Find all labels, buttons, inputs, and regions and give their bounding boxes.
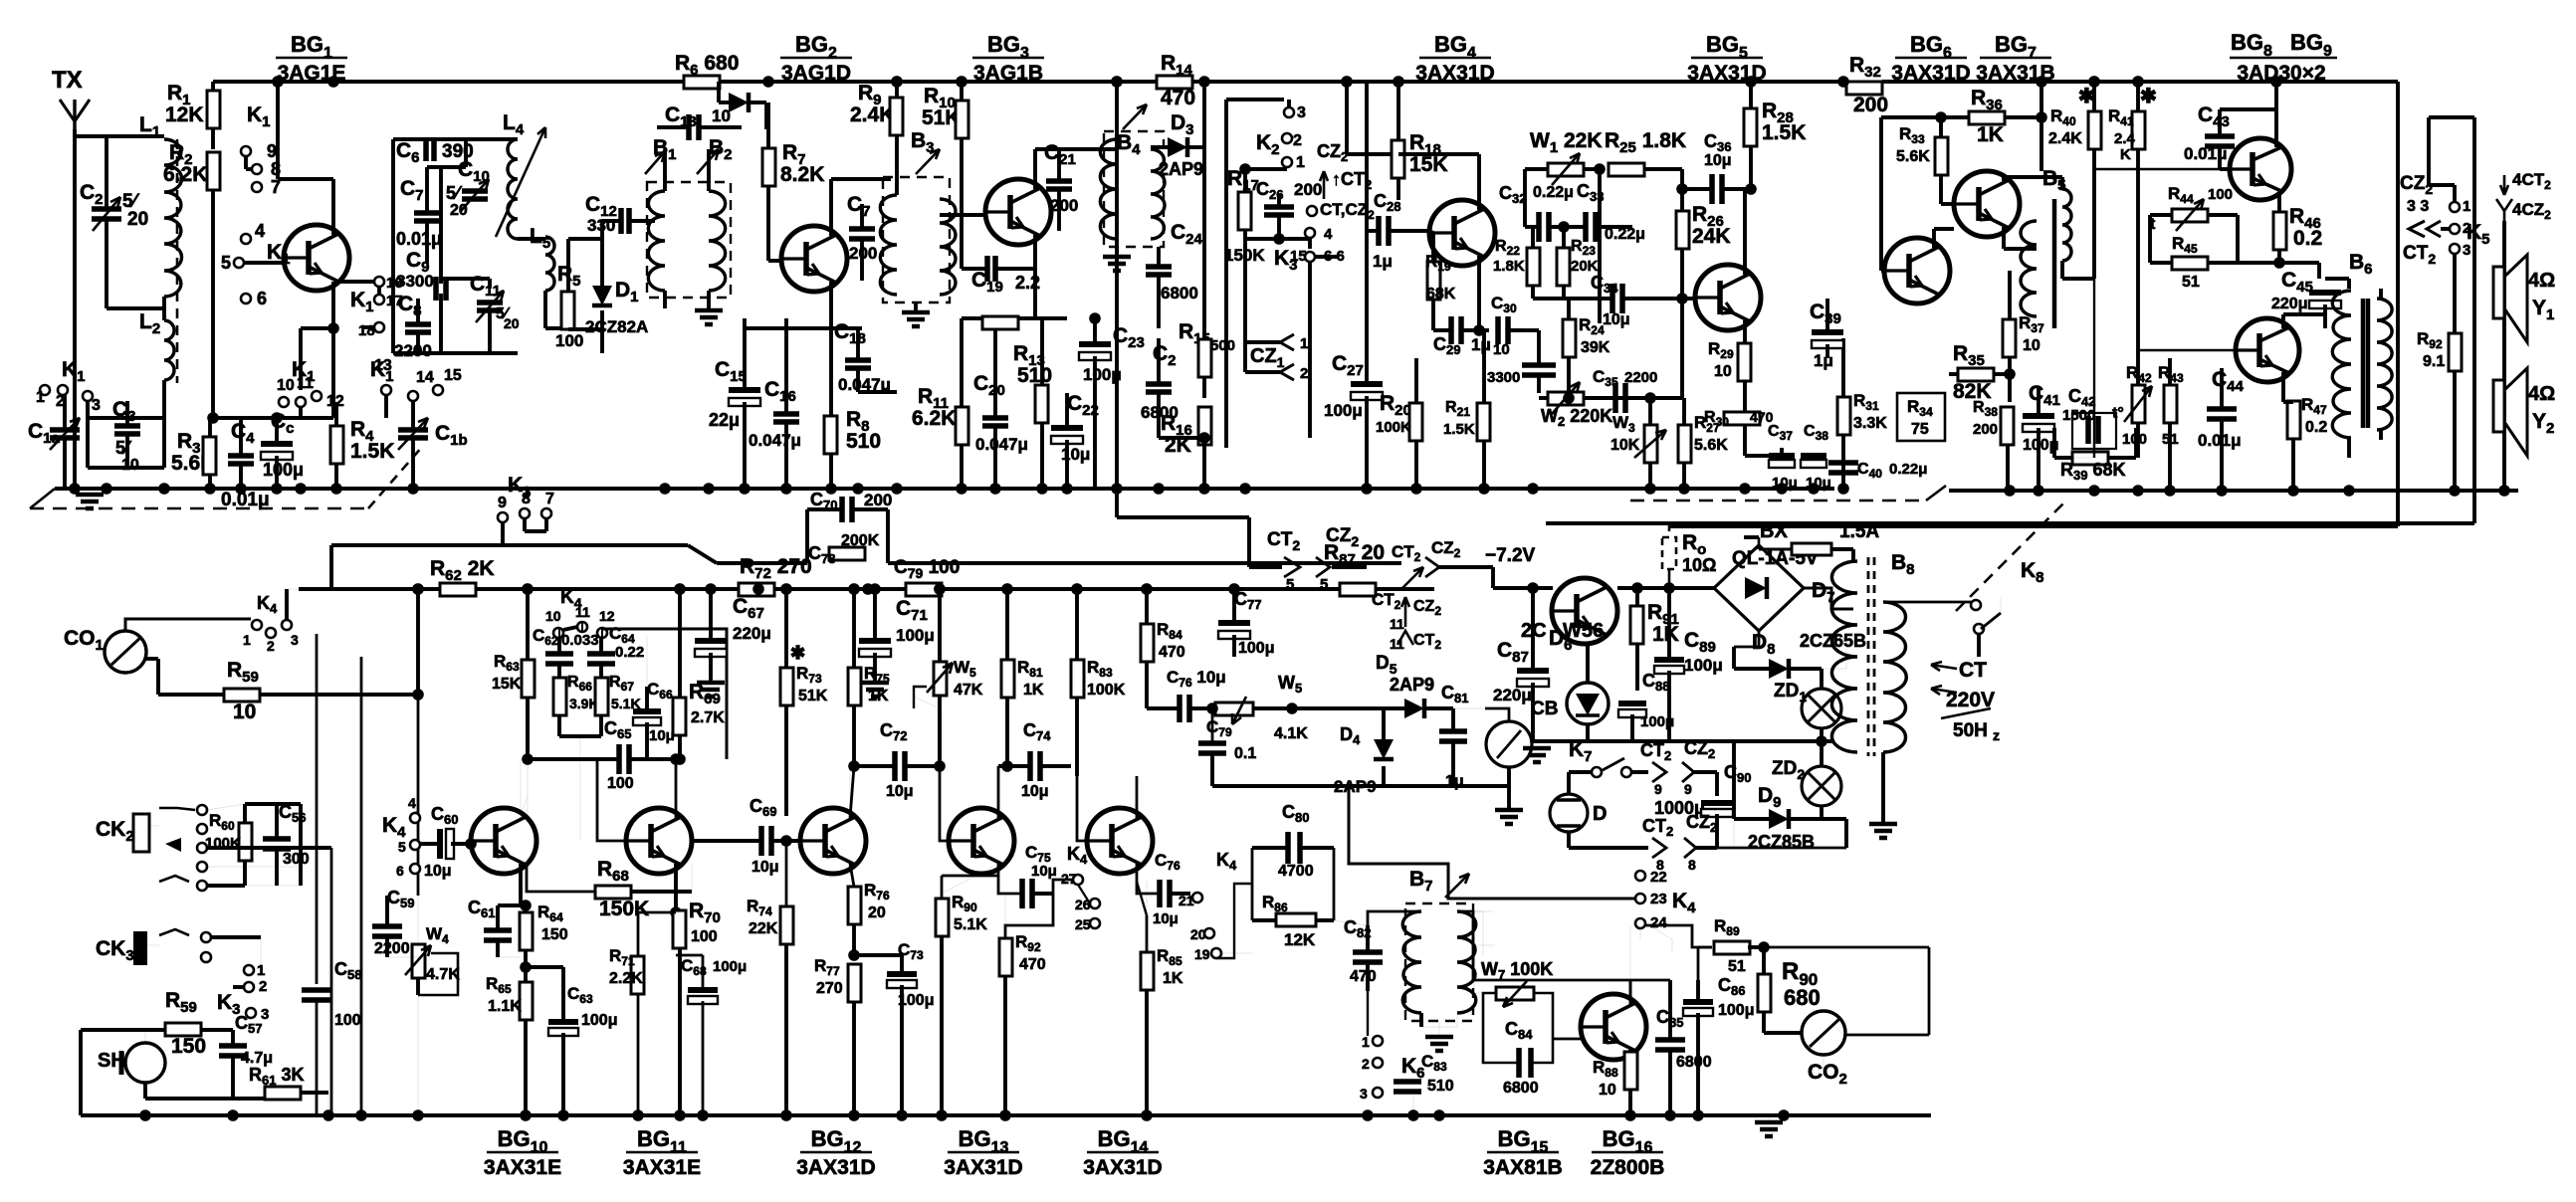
- svg-text:220μ: 220μ: [733, 624, 771, 643]
- wire BG13 base: [939, 766, 941, 841]
- wire BG1 collector up: [331, 179, 335, 235]
- svg-text:R25 1.8K: R25 1.8K: [1605, 129, 1686, 156]
- resistor R38: [2001, 407, 2014, 445]
- svg-text:SH: SH: [98, 1050, 125, 1072]
- svg-text:1.8K: 1.8K: [1493, 258, 1525, 275]
- svg-text:0.047μ: 0.047μ: [749, 431, 801, 450]
- svg-text:10: 10: [545, 608, 561, 624]
- svg-text:0.01μ: 0.01μ: [2198, 431, 2242, 450]
- wire CO1 top: [125, 619, 251, 631]
- wire L1 core: [176, 139, 179, 383]
- svg-text:6: 6: [396, 863, 404, 879]
- svg-text:470: 470: [1019, 956, 1046, 973]
- svg-text:3300: 3300: [1487, 369, 1520, 386]
- svg-text:100μ: 100μ: [263, 460, 304, 480]
- svg-text:14: 14: [416, 369, 434, 386]
- jack CK2: [133, 814, 149, 852]
- wire BG13 emitter: [942, 864, 998, 876]
- svg-text:23: 23: [1650, 891, 1667, 907]
- svg-text:10μ: 10μ: [751, 859, 779, 876]
- svg-text:10μ: 10μ: [1704, 152, 1732, 169]
- wire bridge to B8: [1804, 588, 1853, 609]
- wire BG4 collector: [1477, 154, 1481, 210]
- wire ZD right link: [1845, 633, 1847, 669]
- svg-text:75: 75: [1911, 421, 1929, 438]
- wire detector bottom: [1212, 784, 1509, 788]
- svg-text:1: 1: [1362, 1034, 1370, 1050]
- resistor R91: [1630, 606, 1643, 644]
- svg-text:10: 10: [1599, 1082, 1616, 1099]
- resistor R89: [1714, 941, 1750, 954]
- resistor R67: [595, 678, 608, 715]
- svg-text:15: 15: [444, 367, 462, 384]
- resistor R18: [1392, 140, 1404, 178]
- junction dots audio rail: [412, 583, 424, 595]
- svg-text:2.4K: 2.4K: [850, 103, 894, 126]
- wire BG9 base: [2138, 349, 2236, 351]
- wire mid output: [2254, 261, 2319, 265]
- svg-text:1K: 1K: [868, 688, 889, 704]
- transistor BG3: [985, 179, 1051, 245]
- potentiometer W5: [934, 662, 947, 696]
- transistor BG5: [1695, 265, 1761, 330]
- svg-text:15K: 15K: [492, 676, 522, 693]
- wire C3 frame: [86, 401, 90, 468]
- resistor R63: [522, 660, 535, 698]
- svg-text:100: 100: [691, 928, 718, 945]
- wire base lead: [245, 261, 284, 265]
- ground B7: [1438, 1021, 1440, 1035]
- resistor R71: [631, 956, 644, 994]
- svg-text:3: 3: [2463, 242, 2470, 259]
- resistor R92b: [999, 938, 1012, 976]
- svg-text:10: 10: [233, 701, 256, 723]
- svg-text:z: z: [1993, 727, 2000, 743]
- resistor R65: [520, 982, 533, 1020]
- wire BG6 collector: [1932, 229, 1936, 248]
- wire B7 sec to W7: [1457, 911, 1483, 955]
- svg-text:470: 470: [1350, 968, 1377, 985]
- potentiometer W2: [1548, 392, 1584, 405]
- wire BG15 top link: [1473, 979, 1670, 982]
- resistor R19: [1427, 262, 1440, 300]
- svg-text:39K: 39K: [1581, 339, 1610, 356]
- inductor B3 primary: [880, 195, 897, 295]
- wire R7 top: [717, 82, 721, 102]
- wire BG3 collector: [1033, 149, 1037, 189]
- svg-text:2: 2: [267, 638, 275, 654]
- resistor R43: [2164, 385, 2177, 423]
- svg-text:5.1K: 5.1K: [954, 916, 987, 933]
- svg-text:21: 21: [1179, 893, 1194, 908]
- svg-text:19: 19: [1194, 946, 1210, 962]
- svg-text:7: 7: [545, 491, 554, 507]
- transistor BG7: [1954, 171, 2020, 237]
- resistor R59: [224, 689, 260, 701]
- transistor BG9: [2236, 318, 2299, 382]
- contact CT CZ2: [1307, 206, 1317, 216]
- wire BG14 emitter: [1136, 864, 1139, 882]
- svg-text:R6 680: R6 680: [675, 52, 739, 79]
- wire BG13 collector: [997, 766, 1000, 818]
- svg-text:500: 500: [1210, 337, 1235, 354]
- svg-text:2: 2: [1293, 132, 1302, 149]
- transistor BG4: [1429, 200, 1495, 266]
- svg-text:✱: ✱: [2140, 86, 2157, 107]
- inductor B7 secondary: [1457, 911, 1476, 1013]
- svg-text:510: 510: [1427, 1078, 1454, 1095]
- svg-text:1: 1: [36, 389, 45, 406]
- wire BG10 rail drop: [526, 589, 530, 759]
- wire BG10 collector: [520, 759, 522, 818]
- ground B4: [1115, 247, 1119, 255]
- svg-text:6800: 6800: [1676, 1054, 1712, 1071]
- svg-text:470: 470: [1161, 87, 1195, 109]
- potentiometer W5b: [1215, 702, 1253, 715]
- wire K5 wiring: [2453, 185, 2457, 202]
- svg-text:10Ω: 10Ω: [1682, 555, 1716, 575]
- resistor R81: [1001, 660, 1014, 698]
- resistor R41: [2132, 111, 2145, 149]
- svg-text:100: 100: [555, 331, 583, 350]
- potentiometer W3: [1644, 425, 1657, 463]
- inductor B4 primary: [1100, 139, 1117, 239]
- resistor R66: [553, 678, 566, 715]
- svg-text:100: 100: [607, 775, 634, 792]
- resistor R36: [1969, 111, 2005, 124]
- svg-text:8: 8: [522, 491, 531, 507]
- wire BG7 emitter: [2002, 227, 2006, 249]
- label 4CT2 4CZ2: [2503, 175, 2506, 195]
- bridge rectifier D7: [1714, 545, 1804, 631]
- resistor R40: [2088, 111, 2101, 149]
- resistor R61: [265, 1087, 301, 1100]
- svg-text:100μ: 100μ: [1718, 1002, 1754, 1019]
- inductor B3 secondary: [940, 199, 956, 295]
- resistor R75: [848, 668, 861, 705]
- svg-text:200: 200: [1294, 180, 1322, 199]
- svg-text:4700: 4700: [1278, 863, 1314, 880]
- transistor BG14: [1087, 808, 1153, 874]
- resistor R76: [848, 887, 861, 924]
- svg-text:✱: ✱: [790, 643, 805, 663]
- svg-text:4: 4: [408, 795, 416, 811]
- wire SH: [144, 1030, 146, 1043]
- svg-text:3.3K: 3.3K: [1853, 415, 1887, 432]
- resistor R29: [1738, 343, 1751, 381]
- svg-text:6: 6: [257, 289, 267, 308]
- svg-text:100μ: 100μ: [1684, 656, 1723, 675]
- svg-text:5.6K: 5.6K: [1694, 437, 1728, 454]
- wire BG8 collector: [2274, 109, 2278, 147]
- svg-text:4Ω: 4Ω: [2528, 270, 2555, 292]
- svg-text:2CZ82A: 2CZ82A: [585, 317, 648, 336]
- ground B3: [914, 302, 918, 310]
- wire B5 secondary bottom: [2093, 279, 2095, 458]
- wire W7 loop: [1534, 993, 1553, 1039]
- svg-text:1.5A: 1.5A: [1839, 521, 1879, 542]
- svg-text:R72 270: R72 270: [740, 555, 812, 582]
- wire BG5 collector: [1743, 189, 1747, 275]
- svg-text:10μ: 10μ: [424, 863, 452, 880]
- wire B8 core: [1867, 557, 1870, 756]
- resistor R83: [1071, 660, 1084, 698]
- svg-text:24K: 24K: [1692, 225, 1731, 248]
- svg-text:10μ: 10μ: [886, 783, 914, 800]
- svg-text:0.2: 0.2: [2293, 227, 2322, 250]
- svg-text:9: 9: [267, 141, 277, 161]
- svg-text:11: 11: [575, 604, 590, 620]
- svg-text:BX: BX: [1760, 520, 1788, 542]
- svg-text:W1 22K: W1 22K: [1530, 129, 1603, 156]
- wire det node: [1245, 237, 1310, 241]
- svg-text:3AX31E: 3AX31E: [623, 1156, 701, 1179]
- svg-text:4Ω: 4Ω: [2528, 383, 2555, 405]
- svg-text:270: 270: [816, 980, 843, 997]
- svg-text:0.22μ: 0.22μ: [1533, 184, 1574, 201]
- wire BG11 collector: [675, 786, 677, 818]
- svg-text:22K: 22K: [749, 920, 778, 937]
- resistor R22: [1527, 248, 1540, 286]
- svg-text:CT: CT: [1959, 659, 1987, 682]
- wire dashed diagonal output: [1956, 502, 2064, 611]
- svg-text:13: 13: [374, 357, 392, 374]
- junction dots top ground rail: [69, 483, 81, 495]
- svg-text:6800: 6800: [1503, 1080, 1539, 1097]
- ground main left: [76, 493, 104, 498]
- svg-text:9: 9: [1684, 781, 1692, 797]
- svg-text:20: 20: [127, 209, 148, 230]
- resistor R46: [2273, 212, 2286, 250]
- transformer B1 B2 dashed can: [647, 182, 731, 298]
- resistor R72: [739, 583, 774, 596]
- svg-text:1μ: 1μ: [1814, 351, 1833, 370]
- wire BG9 emitter: [2281, 372, 2285, 402]
- transformer B8 secondary: [1883, 602, 1906, 752]
- transistor BG1: [284, 225, 349, 291]
- svg-text:10K: 10K: [1610, 437, 1640, 454]
- wire BG5 emitter node: [1743, 441, 1747, 456]
- wire W5 to C72: [936, 765, 940, 768]
- svg-text:150: 150: [171, 1035, 206, 1058]
- wire BG7 base link: [1941, 202, 1954, 206]
- wire K2 up: [1226, 98, 1284, 101]
- svg-text:−7.2V: −7.2V: [1485, 545, 1536, 566]
- svg-text:2200: 2200: [374, 940, 410, 957]
- wire K4 top loop: [558, 629, 560, 637]
- svg-text:17: 17: [386, 293, 403, 309]
- wire top ground rail: [55, 487, 1834, 491]
- svg-text:0.2: 0.2: [2305, 419, 2327, 436]
- ground B2: [695, 308, 723, 313]
- resistor R68: [595, 886, 631, 899]
- wire BG14 collector: [1136, 776, 1139, 818]
- svg-text:R62 2K: R62 2K: [430, 557, 495, 584]
- svg-text:11: 11: [1390, 636, 1404, 652]
- svg-text:20: 20: [504, 315, 520, 331]
- wire CO2 ground: [1823, 1055, 1825, 1075]
- svg-text:200: 200: [1050, 196, 1078, 215]
- inductor B2 secondary: [709, 191, 726, 291]
- resistor R24: [1563, 319, 1576, 357]
- resistor R85: [1141, 952, 1154, 990]
- svg-text:26: 26: [1075, 897, 1091, 912]
- svg-text:2Z800B: 2Z800B: [1591, 1156, 1665, 1179]
- wire BG1 emitter: [331, 282, 335, 328]
- wire C2 branch: [105, 136, 108, 209]
- svg-text:6.2K: 6.2K: [163, 163, 207, 186]
- wire top supply rail: [213, 80, 686, 84]
- svg-text:22μ: 22μ: [709, 410, 740, 430]
- svg-text:100K: 100K: [1376, 419, 1411, 436]
- wire AGC node: [1567, 378, 1571, 398]
- svg-text:2AP9: 2AP9: [1159, 159, 1203, 179]
- svg-text:6800: 6800: [1161, 284, 1198, 302]
- potentiometer W4: [412, 944, 425, 978]
- svg-text:2: 2: [1300, 365, 1308, 382]
- transformer B3 dashed can: [883, 177, 950, 302]
- svg-text:R39 68K: R39 68K: [2060, 460, 2126, 483]
- svg-text:680: 680: [1784, 985, 1821, 1010]
- wire K3 down to CZ1: [1243, 263, 1247, 342]
- wire mid rail link: [784, 318, 788, 393]
- svg-text:18: 18: [358, 322, 375, 339]
- wire R59 node up: [416, 589, 420, 695]
- svg-text:2AP9: 2AP9: [1390, 675, 1434, 695]
- wire CK3 link: [205, 937, 207, 942]
- svg-text:CB: CB: [1531, 699, 1558, 719]
- svg-text:200K: 200K: [841, 532, 880, 549]
- svg-text:D: D: [1593, 803, 1607, 825]
- svg-text:0.01μ: 0.01μ: [396, 229, 442, 249]
- resistor Ro dashed: [1662, 537, 1676, 569]
- svg-text:1: 1: [243, 632, 251, 648]
- svg-text:10μ: 10μ: [649, 727, 675, 744]
- wire mid audio node: [526, 757, 619, 761]
- svg-text:2: 2: [259, 978, 267, 995]
- svg-text:100μ: 100μ: [896, 626, 935, 645]
- svg-text:220μ: 220μ: [2271, 296, 2307, 312]
- resistor R14: [1157, 76, 1192, 89]
- svg-text:2.4: 2.4: [2114, 130, 2136, 147]
- speaker Y1: [2493, 267, 2504, 318]
- transformer B7 dashed: [1405, 903, 1473, 1021]
- wire dashed chassis line: [1630, 500, 1926, 502]
- svg-text:22: 22: [1650, 869, 1667, 886]
- transistor BG6: [1884, 238, 1950, 303]
- svg-text:25: 25: [1075, 916, 1091, 932]
- svg-text:3AX81B: 3AX81B: [1483, 1156, 1562, 1179]
- svg-text:2200: 2200: [1624, 369, 1657, 386]
- svg-text:100: 100: [2122, 431, 2147, 448]
- svg-text:1: 1: [1296, 154, 1305, 171]
- wire BG2 collector: [829, 179, 833, 236]
- wire det out: [1159, 436, 1204, 440]
- wire output box inner: [1546, 521, 2474, 525]
- svg-text:0.22μ: 0.22μ: [1889, 461, 1927, 478]
- svg-text:15K: 15K: [1409, 153, 1448, 176]
- wire CK2 frame: [207, 804, 245, 810]
- svg-text:K: K: [2120, 146, 2131, 163]
- svg-text:W2 220K: W2 220K: [1541, 406, 1612, 429]
- resistor R60: [239, 823, 252, 861]
- wire audio left verticals: [316, 634, 319, 984]
- wire BG15 collector: [1629, 925, 1631, 1004]
- resistor R23: [1557, 248, 1570, 286]
- resistor R64: [520, 912, 533, 950]
- wire CZ2 to minus7: [1401, 567, 1423, 589]
- wire power rail: [1493, 586, 1553, 590]
- resistor R92: [2449, 333, 2462, 371]
- switch K1 16-17-18: [374, 277, 384, 287]
- transistor BG2: [781, 226, 847, 292]
- svg-text:1K: 1K: [1163, 970, 1183, 987]
- svg-text:68K: 68K: [1426, 286, 1456, 302]
- wire BG6 base: [1881, 269, 1884, 273]
- svg-text:6.2K: 6.2K: [912, 407, 956, 430]
- wire BG11 emitter: [674, 864, 678, 912]
- wire L2 down: [162, 380, 166, 418]
- svg-text:9: 9: [1654, 781, 1662, 797]
- resistor R47: [2287, 401, 2300, 439]
- svg-text:1.5K: 1.5K: [350, 440, 394, 463]
- resistor R77: [848, 964, 861, 1002]
- wire D9 bottom link: [1733, 819, 1735, 848]
- resistor R90b: [936, 899, 949, 936]
- transistor BG10: [471, 808, 537, 874]
- switch K4 contacts 22-24: [1635, 871, 1645, 881]
- resistor R59b: [165, 1023, 201, 1036]
- switch K6: [1373, 1036, 1383, 1046]
- svg-text:200: 200: [864, 491, 892, 509]
- wire antenna down: [73, 129, 77, 489]
- jack CO1: [105, 631, 146, 673]
- wire output bottom rail: [1949, 489, 2518, 493]
- svg-text:100: 100: [334, 1012, 361, 1029]
- svg-text:3 3: 3 3: [2407, 198, 2429, 215]
- resistor R90c: [1758, 974, 1771, 1012]
- svg-text:200: 200: [1973, 421, 1998, 438]
- resistor R31: [1837, 397, 1850, 435]
- resistor R73: [780, 668, 793, 705]
- resistor R87: [1340, 583, 1376, 596]
- resistor R32: [1846, 82, 1882, 95]
- svg-text:3AX31D: 3AX31D: [944, 1156, 1022, 1179]
- jack CK3: [133, 931, 147, 965]
- svg-text:20: 20: [1190, 926, 1206, 942]
- svg-text:1: 1: [2463, 198, 2470, 215]
- inductor B1 primary: [648, 191, 665, 291]
- svg-text:150K: 150K: [599, 898, 649, 920]
- junction dots top rail: [272, 76, 284, 88]
- svg-text:10: 10: [121, 457, 139, 474]
- svg-text:9.1: 9.1: [2423, 353, 2445, 370]
- wire BG8 base: [2218, 159, 2222, 169]
- svg-text:4.7K: 4.7K: [426, 966, 460, 983]
- svg-text:10: 10: [2023, 337, 2040, 354]
- svg-text:3: 3: [1297, 104, 1306, 121]
- wire B1 frame: [663, 149, 667, 191]
- svg-text:100μ: 100μ: [1238, 640, 1274, 657]
- svg-text:51K: 51K: [798, 688, 828, 704]
- svg-text:1: 1: [1300, 335, 1308, 352]
- switch K1 4-5-6: [241, 234, 251, 244]
- svg-text:8: 8: [1688, 857, 1696, 873]
- wire dashed chassis left: [30, 507, 368, 510]
- plug CT mains: [1931, 665, 1957, 669]
- resistor R44: [2172, 209, 2208, 222]
- svg-text:100μ: 100μ: [581, 1012, 617, 1029]
